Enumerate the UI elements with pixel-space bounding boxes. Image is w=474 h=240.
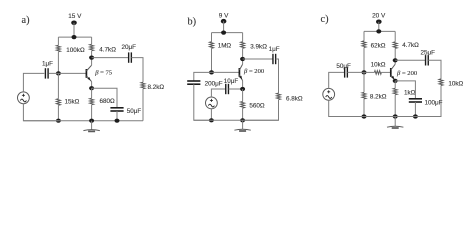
- wire source to C1 (b): [211, 89, 225, 97]
- source Vs (a): [18, 92, 30, 104]
- wire emitter to node (a): [91, 82, 93, 89]
- wire Vcc to RC (c): [394, 31, 396, 41]
- resistor R2 15k ohm (a): [56, 99, 60, 106]
- svg-text:25μF: 25μF: [421, 50, 436, 57]
- wire bottom rail (b): [194, 119, 279, 121]
- wire RE to rail (c): [394, 95, 396, 117]
- wire bypass branch (c): [395, 81, 415, 99]
- node CE-rail junction (a): [115, 119, 120, 123]
- transistor Q2 beta 200 (b): [239, 64, 243, 80]
- node base junction (a): [56, 71, 61, 75]
- wire emitter to node (b): [242, 81, 244, 89]
- wire bottom rail (a): [23, 120, 143, 122]
- svg-text:β = 200: β = 200: [396, 70, 418, 77]
- wire Vcc to R3 (a): [91, 37, 93, 44]
- node Vcc rail junction (c): [376, 29, 381, 33]
- node collector junction (b): [240, 57, 245, 61]
- transistor Q1 beta 75 (a): [86, 65, 91, 81]
- wire source to C1 (a): [23, 73, 44, 92]
- resistor RL 6.8k ohm (b): [277, 93, 281, 100]
- resistor RB 1M ohm (b): [210, 42, 214, 49]
- wire collector to C2 (a): [92, 57, 129, 59]
- wire load to rail (c): [415, 86, 441, 117]
- wire base node to base (b): [212, 71, 240, 73]
- svg-text:20 V: 20 V: [372, 13, 386, 20]
- resistor R3 4.7k ohm (a): [90, 44, 94, 51]
- svg-text:15 V: 15 V: [68, 13, 82, 20]
- wire CB to rail (b): [194, 84, 212, 120]
- wire RB to base node (b): [211, 48, 213, 72]
- svg-text:100μF: 100μF: [425, 99, 443, 106]
- node Vcc rail junction (a): [72, 35, 77, 39]
- wire R2 to rail (c): [363, 99, 365, 117]
- svg-text:15kΩ: 15kΩ: [65, 99, 80, 106]
- node Vcc rail junction (b): [221, 30, 226, 34]
- capacitor C2 20uF (a): [128, 52, 130, 62]
- supply terminal +15V (a): [71, 21, 77, 26]
- wire supply stem (c): [378, 22, 380, 32]
- svg-text:680Ω: 680Ω: [100, 98, 116, 105]
- node emitter junction (a): [89, 86, 94, 90]
- resistor RE 560 ohm (b): [241, 102, 245, 109]
- node emitter ground junction (c): [393, 114, 398, 118]
- svg-text:8.2kΩ: 8.2kΩ: [148, 84, 165, 91]
- wire ground stem (c): [394, 117, 396, 127]
- svg-text:100kΩ: 100kΩ: [66, 47, 85, 54]
- resistor RC 4.7k ohm (c): [393, 42, 397, 49]
- node divider junction (c): [362, 70, 367, 74]
- wire bottom rail (c): [329, 116, 441, 118]
- wire top rail (a): [58, 36, 91, 38]
- svg-text:560Ω: 560Ω: [249, 103, 265, 110]
- wire source to C1 (c): [329, 72, 345, 88]
- wire RC to collector (c): [394, 48, 396, 64]
- wire source bottom (b): [210, 109, 212, 121]
- wire divider node to R2 (c): [363, 72, 365, 92]
- capacitor CE 50uF (a): [110, 107, 123, 109]
- wire ground stem (b): [242, 120, 244, 129]
- svg-text:a): a): [22, 15, 30, 26]
- wire R1 top (a): [57, 37, 59, 45]
- wire R1 to base node (a): [57, 52, 59, 74]
- capacitor C1 10uF (b): [225, 84, 227, 94]
- resistor RE 680 ohm (a): [90, 98, 94, 105]
- resistor RL 10k ohm (c): [439, 79, 443, 86]
- supply terminal 9V (b): [221, 19, 227, 24]
- capacitor C1 1uF (a): [44, 68, 46, 78]
- wire R1 to divider node (c): [363, 48, 365, 73]
- resistor R1 62k ohm (c): [362, 41, 366, 48]
- wire CE to rail (a): [116, 111, 118, 121]
- wire top rail (b): [212, 32, 243, 34]
- capacitor CB 200uF (b): [187, 80, 200, 82]
- node emitter junction (c): [393, 79, 398, 83]
- wire collector to C2 (c): [395, 59, 425, 61]
- svg-text:1μF: 1μF: [269, 46, 280, 53]
- wire C2 to load (a): [131, 58, 143, 83]
- wire ground stem (a): [91, 121, 93, 130]
- wire C1 to divider node (c): [347, 71, 364, 73]
- wire RE to rail (a): [91, 105, 93, 121]
- wire top rail (c): [364, 30, 395, 32]
- wire base node to R2 (a): [57, 73, 59, 98]
- wire bypass branch (a): [92, 88, 117, 108]
- resistor R2 8.2k ohm (c): [362, 92, 366, 99]
- svg-text:1MΩ: 1MΩ: [218, 43, 232, 50]
- capacitor C1 50uF (c): [344, 67, 346, 77]
- wire C2 to load (c): [428, 60, 441, 79]
- wire RC to collector (b): [242, 48, 244, 64]
- svg-text:4.7kΩ: 4.7kΩ: [99, 47, 116, 54]
- svg-text:3.9kΩ: 3.9kΩ: [250, 43, 267, 50]
- node R2-rail junction (c): [362, 114, 367, 118]
- wire load to rail (a): [142, 89, 144, 121]
- transistor Q3 beta 200 (c): [391, 64, 395, 80]
- wire emitter node to RE (b): [242, 89, 244, 102]
- node collector junction (a): [89, 56, 94, 60]
- svg-text:β = 200: β = 200: [243, 68, 265, 75]
- capacitor C2 1uF (b): [272, 54, 274, 64]
- wire node to RB (c): [364, 71, 374, 73]
- wire emitter node to RE (a): [91, 88, 93, 98]
- wire R1 top (c): [363, 31, 365, 41]
- wire C1 to emitter (b): [229, 88, 243, 90]
- resistor RB 10k ohm series (c): [374, 71, 381, 75]
- wire RB to base (c): [381, 71, 390, 73]
- resistor RC 3.9k ohm (b): [241, 42, 245, 49]
- wire R3 to collector (a): [91, 51, 93, 65]
- wire Vcc to RC (b): [242, 33, 244, 42]
- wire C1 to base (a): [49, 72, 87, 74]
- node CE-rail junction (c): [413, 114, 418, 118]
- node collector junction (c): [393, 58, 398, 62]
- wire base node to CB (b): [194, 72, 212, 81]
- wire CE to rail (c): [414, 102, 416, 117]
- svg-text:4.7kΩ: 4.7kΩ: [402, 42, 419, 49]
- svg-text:200μF: 200μF: [205, 80, 223, 87]
- svg-text:50μF: 50μF: [336, 63, 351, 70]
- svg-text:8.2kΩ: 8.2kΩ: [370, 94, 387, 101]
- node emitter ground junction (b): [240, 118, 245, 122]
- svg-text:10kΩ: 10kΩ: [448, 80, 463, 87]
- svg-text:6.8kΩ: 6.8kΩ: [286, 96, 303, 103]
- wire C2 to load (b): [276, 59, 279, 93]
- wire collector to C2 (b): [243, 58, 273, 60]
- resistor RL 8.2k ohm (a): [141, 82, 145, 89]
- node source-rail junction (b): [209, 118, 214, 122]
- ground symbol (b): [234, 129, 250, 131]
- node R2-rail junction (a): [56, 119, 61, 123]
- svg-text:9 V: 9 V: [219, 13, 229, 20]
- capacitor C2 25uF (c): [425, 55, 427, 65]
- svg-text:β = 75: β = 75: [94, 70, 113, 77]
- ground symbol (a): [83, 130, 99, 132]
- svg-text:62kΩ: 62kΩ: [371, 43, 386, 50]
- wire supply stem (b): [223, 21, 225, 32]
- wire emitter node to RE (c): [394, 81, 396, 88]
- wire source bottom (c): [329, 100, 364, 116]
- svg-text:1μF: 1μF: [42, 60, 53, 67]
- supply terminal 20V (c): [376, 20, 382, 25]
- svg-text:20μF: 20μF: [122, 44, 137, 51]
- wire supply stem (a): [73, 23, 75, 37]
- resistor RE 1k ohm (c): [393, 88, 397, 95]
- ground symbol (c): [387, 126, 403, 128]
- svg-text:b): b): [188, 16, 197, 27]
- wire load to rail (b): [243, 100, 279, 121]
- capacitor CE 100uF (c): [409, 98, 422, 100]
- resistor R1 100k ohm (a): [56, 45, 60, 52]
- svg-text:50μF: 50μF: [127, 108, 142, 115]
- wire R2 to rail (a): [57, 105, 59, 120]
- node emitter junction (b): [240, 87, 245, 91]
- node base junction (b): [209, 70, 214, 74]
- svg-text:c): c): [321, 14, 329, 25]
- source Vs (c): [323, 88, 335, 100]
- svg-text:1kΩ: 1kΩ: [404, 89, 416, 96]
- svg-text:10kΩ: 10kΩ: [371, 62, 386, 69]
- node emitter ground junction (a): [89, 119, 94, 123]
- wire RE to rail (b): [242, 108, 244, 120]
- wire source bottom (a): [23, 104, 58, 121]
- wire RB top (b): [211, 33, 213, 42]
- source Vs (b): [206, 97, 218, 109]
- svg-text:10μF: 10μF: [224, 78, 239, 85]
